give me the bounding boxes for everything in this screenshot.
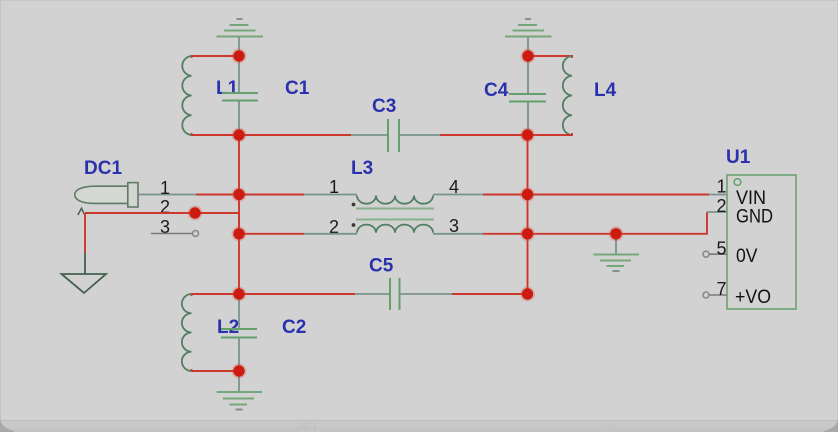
node I dot xyxy=(522,228,533,239)
svg-text:GND: GND xyxy=(736,207,773,228)
wire L3 pin4 stub (teal) xyxy=(433,194,483,196)
svg-text:C1: C1 xyxy=(285,78,310,99)
node K dot xyxy=(233,288,244,299)
wire L3 pin3 stub (teal) xyxy=(433,233,483,235)
svg-text:+VO: +VO xyxy=(735,287,771,308)
node G dot xyxy=(189,207,200,218)
svg-text:1: 1 xyxy=(160,178,170,198)
svg-text:C5: C5 xyxy=(369,256,394,277)
U1 pin5 stub xyxy=(709,253,727,255)
node C dot xyxy=(233,129,244,140)
wire row1 right (red) xyxy=(483,194,709,196)
svg-text:JXF1: JXF1 xyxy=(296,421,317,431)
svg-text:L2: L2 xyxy=(217,317,239,338)
capacitor C2 xyxy=(238,294,240,329)
svg-text:C2: C2 xyxy=(282,317,306,338)
wire L1 top (red) xyxy=(192,56,240,58)
junction dot halos xyxy=(188,49,624,379)
capacitor C3 xyxy=(351,134,388,136)
ground GND-top-left xyxy=(217,19,264,37)
wire L3 pin2 stub (teal) xyxy=(304,233,357,235)
ground GND-mid xyxy=(615,234,617,254)
wire row B right (red) xyxy=(440,134,572,136)
svg-text:DC1: DC1 xyxy=(84,158,122,179)
inductor L2 xyxy=(182,294,192,371)
transformer L3 xyxy=(357,196,433,233)
IC U1 box xyxy=(727,175,796,309)
wire row C left (red) xyxy=(239,293,355,295)
inductor L4 xyxy=(563,56,572,135)
svg-text:0V: 0V xyxy=(736,246,758,267)
L3 phase dot top xyxy=(352,203,356,207)
wire row2 left (red) xyxy=(239,233,304,235)
node A dot xyxy=(233,50,244,61)
wire L4 top (red) xyxy=(528,56,572,58)
wire row1 left (red) xyxy=(196,194,304,196)
wire row2 right (red) xyxy=(483,212,707,234)
wire DC1 pin1 stub (teal) xyxy=(139,194,196,196)
screen edge shading xyxy=(0,0,838,2)
capacitor C1 xyxy=(238,56,240,93)
node E dot xyxy=(233,189,244,200)
svg-text:U1: U1 xyxy=(726,147,751,168)
svg-text:C4: C4 xyxy=(484,80,509,101)
wire right bus vertical (red) xyxy=(527,135,529,294)
DC1 pin3 stub xyxy=(151,233,192,235)
wire DC1 pin2 (red) xyxy=(85,213,239,234)
L3 core lines xyxy=(356,208,434,210)
svg-text:1: 1 xyxy=(717,177,727,197)
U1 pin1 stub xyxy=(709,194,727,196)
wire L2 bottom (red) xyxy=(192,369,240,371)
svg-text:1: 1 xyxy=(329,177,339,197)
node H dot xyxy=(233,228,244,239)
svg-text:5: 5 xyxy=(717,239,727,259)
U1 pin1 indicator circle xyxy=(734,179,741,186)
wire DC1 pin2 down to chassis (red) xyxy=(84,213,86,253)
U1 pin7 stub xyxy=(709,294,727,296)
node J dot xyxy=(610,228,621,239)
wire row C right (red) xyxy=(452,293,528,295)
DC1 contact chevron xyxy=(78,208,85,215)
L3 phase dot bottom xyxy=(352,223,356,227)
node B dot xyxy=(522,50,533,61)
inductor L1 xyxy=(182,56,191,135)
svg-text:2: 2 xyxy=(160,197,170,217)
capacitor C4 xyxy=(527,56,529,94)
svg-text:1001: 1001 xyxy=(600,423,618,432)
svg-text:2: 2 xyxy=(717,196,727,216)
U1 pin2 stub xyxy=(707,211,727,213)
node L dot xyxy=(522,288,533,299)
svg-text:L3: L3 xyxy=(351,158,373,179)
capacitor C5 xyxy=(355,293,390,295)
wire L3 pin1 stub (teal) xyxy=(304,194,357,196)
chassis ground triangle xyxy=(62,274,107,293)
node F dot xyxy=(522,189,533,200)
wire gnd stub to node A xyxy=(238,37,240,57)
chassis ground stub xyxy=(84,253,86,274)
ground GND-top-right xyxy=(505,19,552,37)
svg-text:C3: C3 xyxy=(372,96,396,117)
wire left bus vertical (red) xyxy=(238,135,240,294)
wire L1 bottom (red) xyxy=(192,133,240,135)
wire L2 top (red) xyxy=(192,294,240,296)
svg-text:L4: L4 xyxy=(594,80,617,101)
wire L4 bottom (red) xyxy=(528,133,572,135)
ground GND-bottom xyxy=(238,371,240,391)
node M dot xyxy=(233,365,244,376)
svg-text:L1: L1 xyxy=(216,78,239,99)
node D dot xyxy=(522,129,533,140)
wire row B left (red) xyxy=(239,134,351,136)
wire gnd stub to node B xyxy=(527,37,529,57)
svg-text:7: 7 xyxy=(717,279,727,299)
DC jack DC1 xyxy=(75,186,128,203)
